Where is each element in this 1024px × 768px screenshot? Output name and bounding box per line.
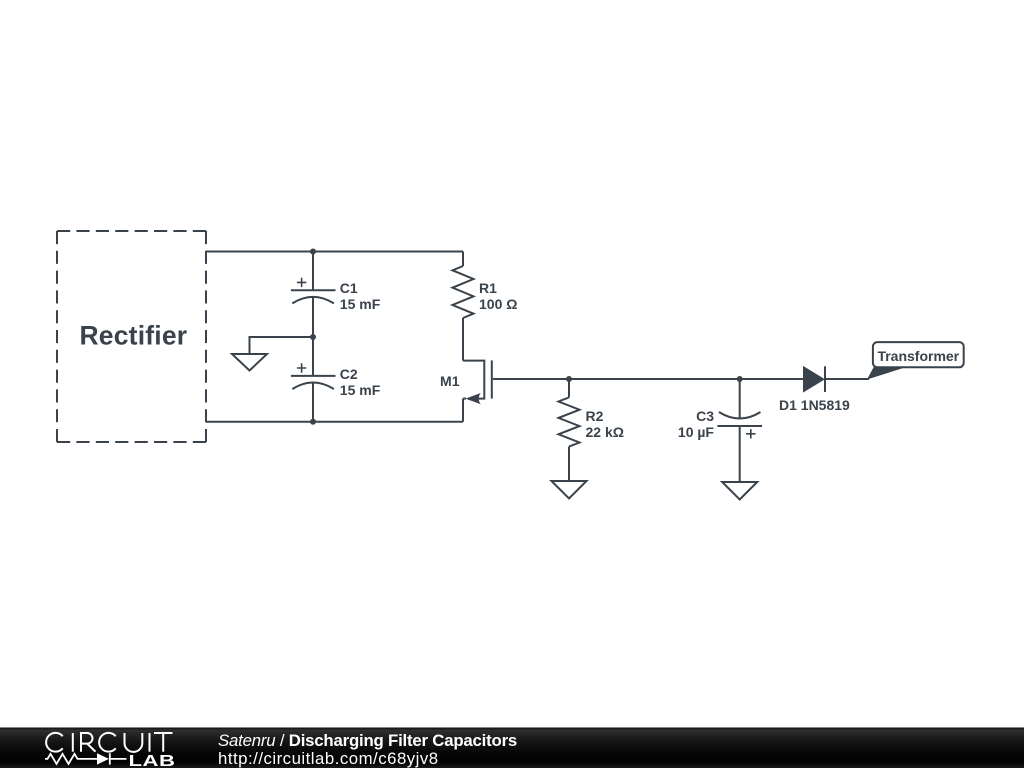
node junction middle	[310, 334, 316, 340]
svg-text:R2: R2	[586, 408, 604, 424]
capacitor C1	[291, 278, 381, 313]
wire C1 top lead	[312, 252, 314, 291]
wire C1 bottom lead	[312, 298, 314, 338]
svg-text:LAB: LAB	[129, 753, 176, 768]
transistor M1	[440, 360, 492, 404]
ground C3	[722, 482, 757, 500]
logo LAB	[129, 753, 176, 768]
footer title	[218, 731, 517, 750]
svg-text:100 Ω: 100 Ω	[479, 296, 517, 312]
logo CIRCUIT	[46, 733, 172, 752]
logo resistor-diode	[45, 753, 127, 764]
svg-text:http://circuitlab.com/c68yjv8: http://circuitlab.com/c68yjv8	[218, 749, 439, 768]
capacitor C2	[291, 363, 381, 398]
resistor R2	[559, 397, 624, 446]
wire C2 bottom lead	[312, 383, 314, 422]
diode D1	[779, 366, 850, 413]
ground R2	[552, 481, 587, 499]
svg-text:15 mF: 15 mF	[340, 296, 381, 312]
svg-text:R1: R1	[479, 280, 497, 296]
svg-text:Transformer: Transformer	[877, 348, 959, 364]
wire M1 source lead	[462, 399, 464, 422]
wire C2 top lead	[312, 337, 314, 376]
svg-text:M1: M1	[440, 373, 460, 389]
svg-text:C3: C3	[696, 408, 714, 424]
capacitor C3	[678, 408, 762, 440]
footer url	[218, 749, 439, 768]
flag pointer	[867, 367, 908, 380]
svg-text:C1: C1	[340, 280, 358, 296]
svg-text:D1 1N5819: D1 1N5819	[779, 397, 850, 413]
ground middle	[232, 354, 267, 371]
rectifier block X1	[57, 231, 206, 442]
svg-text:Rectifier: Rectifier	[79, 321, 187, 351]
resistor R1	[453, 266, 518, 318]
wire R1 top lead	[462, 252, 464, 267]
node junction top	[310, 249, 316, 255]
svg-text:22 kΩ: 22 kΩ	[586, 424, 624, 440]
svg-text:C2: C2	[340, 366, 358, 382]
node junction R2	[566, 376, 572, 382]
wire ground stub horizontal	[250, 337, 314, 354]
flag Transformer	[873, 342, 964, 367]
wire R1 bottom lead	[462, 318, 464, 361]
svg-text:Satenru / Discharging Filter C: Satenru / Discharging Filter Capacitors	[218, 731, 517, 750]
node junction bottom	[310, 419, 316, 425]
wire R2 top lead	[568, 379, 570, 397]
wire C3 top lead	[739, 379, 741, 418]
wire R2 bottom lead	[568, 447, 570, 481]
wire gate rail	[493, 378, 804, 380]
wire bottom rail	[206, 421, 463, 423]
wire D1 to flag	[825, 378, 869, 380]
svg-text:10 µF: 10 µF	[678, 424, 715, 440]
node junction C3	[737, 376, 743, 382]
wire top rail	[206, 251, 463, 253]
svg-text:15 mF: 15 mF	[340, 382, 381, 398]
footer bar	[0, 728, 1024, 768]
wire C3 bottom lead	[739, 426, 741, 482]
